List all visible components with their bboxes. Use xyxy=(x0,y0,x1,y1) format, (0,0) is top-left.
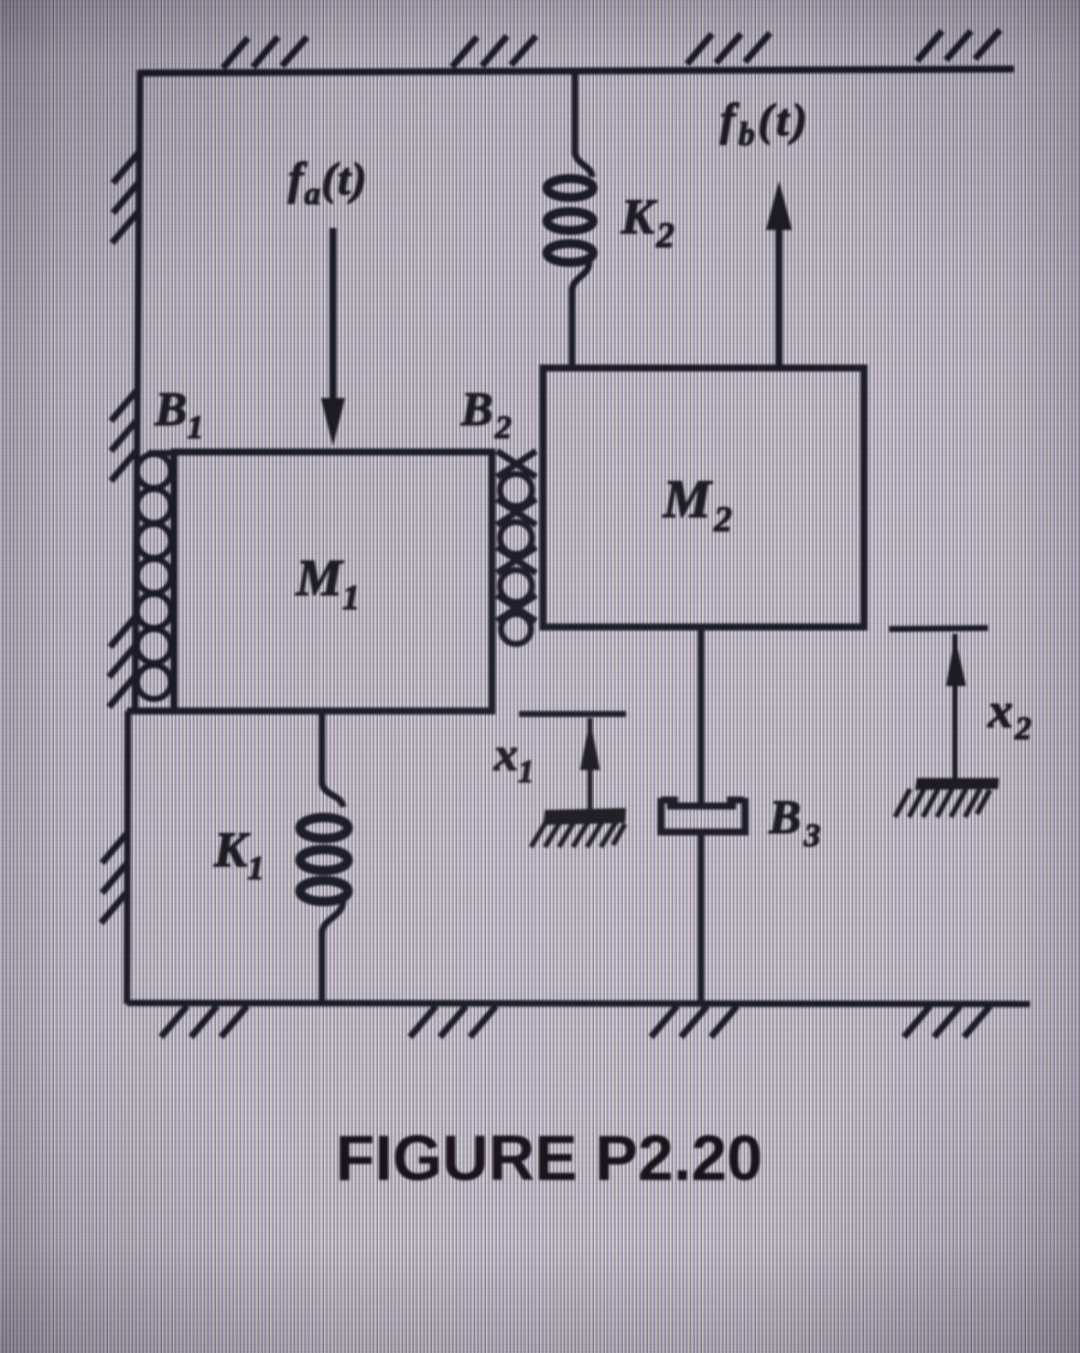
damper B1 roller chain xyxy=(137,454,171,699)
ground hatch group 4 xyxy=(904,1006,990,1037)
displacement reference x1 xyxy=(519,714,626,847)
wire M1 bottom to wall xyxy=(127,708,174,715)
spring K2 xyxy=(547,70,593,368)
wall hatch group 4 xyxy=(101,832,128,923)
ceiling hatch group 4 xyxy=(917,30,1000,61)
spring K1 xyxy=(300,711,348,1003)
force arrow f_a(t) xyxy=(321,228,345,446)
displacement reference x2 xyxy=(889,628,999,817)
damper B2 roller chain xyxy=(497,451,536,644)
ground hatch group 3 xyxy=(651,1006,737,1037)
ceiling hatch group 1 xyxy=(223,37,307,68)
wall upper segment xyxy=(135,70,140,711)
force arrow f_b(t) xyxy=(766,181,792,368)
ceiling xyxy=(139,69,1014,73)
wall hatch group 3 xyxy=(109,616,136,707)
wire M1 top to wall xyxy=(148,450,174,456)
wall lower segment xyxy=(127,711,128,1004)
ground hatch group 1 xyxy=(161,1006,247,1037)
mass M1 box xyxy=(174,452,492,711)
wall hatch group 2 xyxy=(111,390,137,481)
ground xyxy=(127,1003,1030,1004)
ceiling hatch group 3 xyxy=(687,33,770,64)
ceiling hatch group 2 xyxy=(452,36,536,67)
ground hatch group 2 xyxy=(410,1006,496,1037)
mass M2 box xyxy=(543,368,864,627)
wall hatch group 1 xyxy=(112,152,139,243)
damper B3 dashpot xyxy=(661,627,745,1003)
